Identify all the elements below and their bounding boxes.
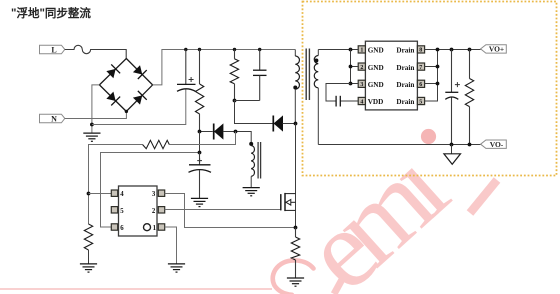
- wire R1 to ground: [88, 250, 90, 264]
- wire D5 anode to aux winding: [223, 132, 251, 143]
- svg-text:N: N: [51, 114, 57, 123]
- pin 3: [158, 190, 164, 196]
- node snubber: [233, 99, 237, 103]
- resistor R5 sense: [291, 228, 299, 279]
- resistor R1: [84, 224, 92, 250]
- svg-text:Drain: Drain: [396, 64, 414, 72]
- pin 2: [158, 207, 164, 213]
- node drain bus 2: [436, 65, 440, 69]
- node rail C1: [184, 48, 187, 51]
- wire clamp diode to drain node: [283, 123, 296, 125]
- wire feedback 2 to pin6: [101, 153, 200, 228]
- ground primary: [83, 133, 100, 141]
- resistor R4 horizontal: [143, 140, 170, 148]
- wire primary ground rail: [92, 89, 186, 125]
- wire snubber node: [235, 101, 274, 124]
- svg-text:5: 5: [120, 208, 124, 215]
- node D5 cathode: [198, 130, 202, 134]
- node GND bus top: [349, 48, 353, 52]
- floating ground triangle: [444, 145, 461, 165]
- wire pin1 to ground: [165, 227, 177, 264]
- wire VDD loop: [326, 84, 359, 102]
- dashed highlight box: [303, 2, 557, 176]
- wire bridge right corner to top rail: [153, 50, 296, 85]
- node GND bus pin2: [349, 65, 353, 69]
- wire secondary to GND pins: [318, 49, 358, 51]
- terminal L: [40, 45, 65, 54]
- node drain bus 3: [436, 82, 440, 86]
- svg-text:GND: GND: [368, 47, 384, 55]
- svg-text:3: 3: [360, 82, 363, 88]
- svg-text:4: 4: [120, 191, 124, 198]
- diode D5 aux rectifier: [214, 124, 223, 140]
- capacitor C3 snubber: [253, 50, 267, 101]
- bridge diode D4 bottom-right: [132, 91, 147, 106]
- transformer T1 primary: [293, 50, 299, 124]
- svg-text:6: 6: [419, 82, 422, 88]
- wire drain vertical: [295, 124, 297, 228]
- wire drain bus: [424, 50, 481, 102]
- node drain top: [294, 122, 298, 126]
- node bridge bottom: [125, 110, 128, 113]
- pin 1: [158, 224, 164, 230]
- svg-text:VDD: VDD: [368, 98, 384, 106]
- svg-text:8: 8: [419, 48, 422, 54]
- pin 4: [111, 190, 117, 196]
- pin 1 GND: [358, 46, 365, 53]
- capacitor C5 VDD: [336, 96, 340, 107]
- wire bridge left corner to primary ground: [92, 85, 100, 133]
- svg-text:"浮地"同步整流: "浮地"同步整流: [11, 6, 91, 20]
- svg-text:2: 2: [152, 208, 156, 215]
- pin 8 Drain: [417, 46, 424, 53]
- terminal N: [40, 114, 65, 123]
- pin 2 GND: [358, 63, 365, 70]
- node GND bus pin3: [349, 82, 353, 86]
- bridge diode D2 top-right: [132, 64, 147, 79]
- bridge rectifier diamond: [99, 59, 152, 112]
- pin1 marker circle: [144, 224, 151, 231]
- IC U2 sync rectifier body: [358, 41, 424, 110]
- ground pin1: [168, 264, 185, 272]
- pin 7 Drain: [417, 63, 424, 70]
- watermark swoosh logo: [0, 260, 314, 294]
- node load top: [468, 48, 472, 52]
- svg-text:4: 4: [360, 99, 363, 105]
- node primary ground junction: [90, 123, 94, 127]
- terminal VO+: [481, 45, 507, 54]
- svg-text:VO-: VO-: [490, 140, 504, 149]
- terminal VO-: [481, 140, 507, 149]
- node out cap top: [450, 48, 454, 52]
- svg-text:GND: GND: [368, 64, 384, 72]
- node C4 top: [198, 151, 202, 155]
- ground R5: [287, 278, 304, 286]
- wire N to bridge: [65, 111, 127, 118]
- transformer T1 secondary: [314, 50, 318, 145]
- watermark dot: [421, 129, 436, 144]
- resistor R2 vertical: [195, 50, 203, 132]
- resistor R3 snubber: [230, 50, 238, 101]
- svg-text:3: 3: [152, 191, 156, 198]
- pin 4 VDD: [358, 97, 365, 104]
- capacitor C1 bulk electrolytic: [177, 50, 196, 92]
- pin 6 Drain: [417, 80, 424, 87]
- watermark text semi: [281, 127, 469, 294]
- svg-text:GND: GND: [368, 81, 384, 89]
- wire pin4: [89, 193, 112, 195]
- inductor L2 aux winding: [249, 142, 260, 188]
- wire R2 bottom to D5 cathode: [200, 131, 213, 133]
- pin 3 GND: [358, 80, 365, 87]
- ground C4: [191, 198, 208, 206]
- svg-text:6: 6: [120, 225, 124, 232]
- svg-text:7: 7: [419, 65, 422, 71]
- diode D6 clamp: [273, 116, 282, 132]
- capacitor C4: [189, 153, 212, 199]
- ground R1: [80, 264, 97, 272]
- svg-text:Drain: Drain: [396, 81, 414, 89]
- pin 6: [111, 224, 117, 230]
- svg-text:1: 1: [360, 48, 363, 54]
- transformer core: [306, 49, 309, 101]
- svg-text:5: 5: [419, 99, 422, 105]
- bridge diode D1 top-left: [105, 64, 120, 79]
- wire output bottom rail: [318, 144, 480, 146]
- svg-text:emı: emı: [281, 127, 469, 294]
- wire GND bus: [351, 50, 359, 84]
- bridge diode D3 bottom-left: [105, 91, 120, 106]
- node rail R3: [233, 48, 236, 51]
- svg-text:Drain: Drain: [396, 98, 414, 106]
- wire R4 to pin4 node: [89, 145, 143, 225]
- node D5 anode junction: [234, 130, 238, 134]
- node load bottom: [468, 143, 472, 147]
- IC U1 body: [111, 186, 164, 236]
- watermark extra letter stroke: [470, 180, 497, 213]
- wire pin2 gate: [165, 209, 281, 211]
- pin 5 Drain: [417, 97, 424, 104]
- pin 5: [111, 207, 117, 213]
- resistor R6 load: [465, 50, 473, 145]
- transistor Q1 MOSFET: [281, 193, 296, 211]
- svg-text:1: 1: [153, 225, 157, 232]
- wire D5 cathode node down to C4 node: [199, 132, 201, 153]
- ground aux: [243, 188, 260, 196]
- node drain bus top: [436, 48, 440, 52]
- wire pin3 sense: [165, 194, 296, 228]
- svg-text:Drain: Drain: [396, 47, 414, 55]
- watermark lower letter sliver: [334, 279, 343, 294]
- node rail C3: [258, 48, 261, 51]
- node out cap bottom: [450, 143, 454, 147]
- wire feedback 1: [169, 132, 235, 145]
- svg-text:2: 2: [360, 65, 363, 71]
- node pin4 junction: [87, 192, 91, 196]
- svg-text:L: L: [51, 45, 56, 54]
- capacitor C6 output electrolytic: [445, 50, 460, 145]
- svg-text:VO+: VO+: [489, 45, 504, 54]
- fuse F1: [65, 45, 126, 58]
- node MOSFET source: [294, 226, 298, 230]
- node rail R2: [198, 48, 201, 51]
